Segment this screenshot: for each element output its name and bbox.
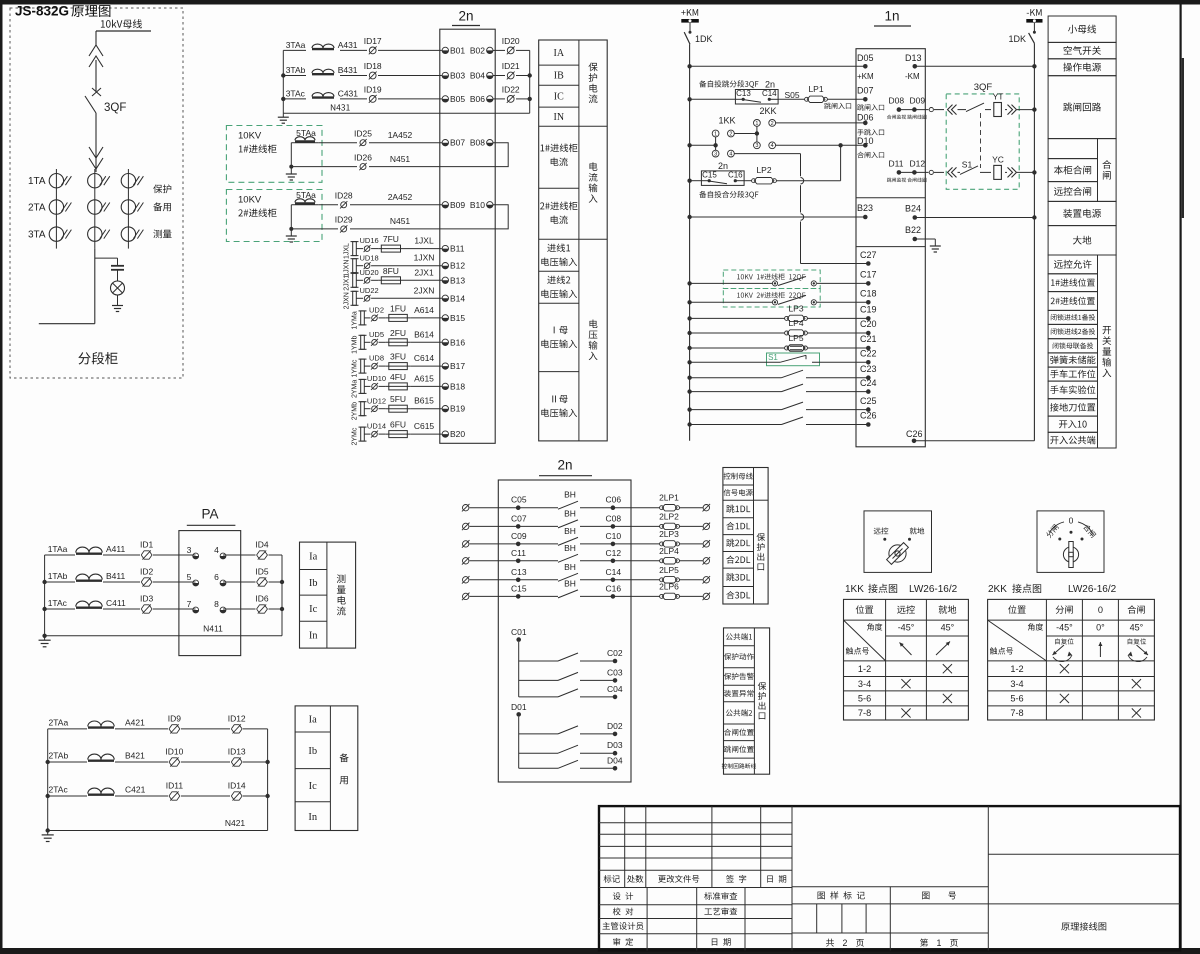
svg-text:5FU: 5FU [390, 394, 406, 404]
wire bus to 1KK [687, 137, 717, 150]
output table 2 grid [724, 628, 770, 774]
svg-text:C24: C24 [860, 378, 877, 388]
terminal external left (C11) [462, 557, 470, 565]
terminal B15 [442, 313, 465, 323]
terminal C22 [860, 348, 877, 364]
label Ia (PA) [309, 551, 317, 562]
terminal C05 [511, 495, 527, 510]
svg-text:1: 1 [714, 131, 717, 137]
terminal B06 [470, 94, 493, 104]
label 7-8 (2KK) [1010, 708, 1023, 718]
label 跳3DL [726, 573, 750, 581]
svg-text:6FU: 6FU [390, 420, 406, 430]
wire 1KK-2 to 2KK [734, 131, 759, 135]
label 1TAb [48, 571, 68, 581]
label 合闸监视 [887, 115, 906, 120]
svg-text:ID2: ID2 [140, 566, 154, 576]
svg-text:B01: B01 [450, 45, 465, 55]
wire C615 row [364, 433, 442, 435]
signal table grid (current/voltage inputs) [539, 40, 608, 441]
terminal C02 [607, 648, 623, 663]
label 2#进线位置 [1051, 297, 1095, 305]
svg-text:In: In [308, 812, 317, 823]
terminal C17 [860, 270, 877, 286]
contact BH (C07) [558, 508, 578, 528]
CT 2TAb [88, 754, 114, 761]
terminal ID25 [354, 128, 372, 146]
svg-text:1YMb: 1YMb [352, 336, 359, 354]
svg-text:2KK: 2KK [759, 106, 776, 116]
svg-text:C15: C15 [511, 583, 527, 593]
svg-text:LP5: LP5 [788, 333, 803, 343]
svg-text:B06: B06 [470, 94, 485, 104]
svg-text:D11: D11 [889, 158, 904, 168]
svg-text:1KK: 1KK [718, 116, 735, 126]
svg-text:2n: 2n [458, 9, 473, 24]
label 公共端1 [726, 633, 752, 640]
svg-text:YC: YC [992, 154, 1004, 164]
svg-text:C13: C13 [736, 89, 751, 98]
svg-text:A421: A421 [125, 717, 145, 727]
svg-text:ID4: ID4 [255, 539, 269, 549]
wire D04 branch [519, 767, 615, 769]
terminal external left (C15) [462, 593, 470, 601]
label 保护告警 [724, 673, 754, 680]
terminal lug 2JXN [351, 291, 359, 305]
X mark 1KK row 1 col 1 [901, 679, 910, 688]
svg-text:ID3: ID3 [140, 593, 154, 603]
X mark 1KK row 0 col 2 [943, 664, 952, 673]
wire C01 common [518, 642, 520, 697]
label 0 (2KK) [1098, 605, 1103, 615]
svg-text:1YMc: 1YMc [352, 359, 359, 377]
label 自复位 (分闸) [1055, 638, 1073, 644]
X mark 2KK row 2 col 1 [1060, 694, 1069, 703]
svg-text:LP2: LP2 [756, 165, 771, 175]
svg-text:10KV: 10KV [238, 194, 262, 205]
svg-text:1FU: 1FU [390, 303, 406, 313]
dashed box 10KV 1#进线柜 12QF [723, 270, 820, 289]
wire bus drop [95, 31, 97, 45]
terminal B07 [442, 138, 465, 148]
terminal C10 [606, 531, 622, 546]
fuse link LP4 [785, 318, 808, 336]
wire 2JX1 row [356, 279, 442, 281]
plug terminal D12 out [929, 170, 933, 174]
svg-text:1: 1 [937, 938, 942, 948]
wire LP2 row [687, 179, 840, 183]
wire B10 return loop [350, 205, 508, 229]
label 1-2 (2KK) [1010, 664, 1023, 674]
label 装置异常 [724, 690, 754, 697]
coil YC [992, 154, 1004, 179]
svg-text:B431: B431 [338, 65, 358, 75]
label 远控 (1KK) [897, 605, 915, 613]
svg-text:Ib: Ib [308, 746, 317, 757]
contact box C15 C16 (2n) [701, 161, 745, 185]
svg-text:In: In [309, 630, 318, 641]
terminal C12 [606, 548, 622, 563]
svg-text:UD20: UD20 [360, 268, 379, 277]
terminal ID22 [502, 84, 520, 102]
svg-text:C11: C11 [511, 548, 526, 558]
svg-text:S05: S05 [784, 90, 799, 100]
wire C25 row [687, 407, 868, 411]
label 控制母线 [724, 473, 753, 480]
svg-text:5-6: 5-6 [858, 694, 871, 704]
group label 电压输入 [589, 319, 598, 360]
terminal lug 1YMc [359, 359, 367, 373]
svg-text:D08: D08 [889, 95, 905, 105]
label 45° (1KK) [941, 623, 955, 633]
label IA [554, 48, 565, 59]
wire N431 [283, 104, 529, 113]
label 就地 (dial) [910, 527, 925, 534]
terminal B04 [470, 70, 493, 80]
label In (PA) [309, 630, 318, 641]
wire C13 row left [470, 579, 559, 581]
wire C03 branch [519, 679, 615, 681]
wire 2LP4 row right [679, 560, 703, 562]
label 位置 (1KK) [856, 605, 874, 614]
terminal D11 [889, 158, 904, 174]
CT 3TAa [0, 0, 1, 1]
svg-text:2TAa: 2TAa [49, 717, 69, 727]
svg-text:Ia: Ia [309, 551, 317, 562]
fuse link LP2 [752, 165, 777, 184]
label 审定 [613, 938, 633, 946]
contact table 1KK grid [844, 599, 969, 720]
fuse link 2LP2 [659, 511, 679, 529]
svg-text:D09: D09 [910, 95, 926, 105]
terminal UD5 [369, 330, 384, 346]
svg-text:3-4: 3-4 [858, 679, 871, 689]
label 合闸线圈 [907, 178, 926, 183]
terminal B23 [857, 203, 873, 219]
group label 保护出口 (2) [758, 682, 766, 719]
wire 2TAb row [48, 761, 268, 763]
label 本柜合闸 [1054, 165, 1091, 174]
svg-text:B615: B615 [414, 396, 434, 406]
label 合1DL [726, 522, 750, 530]
svg-text:2JX1: 2JX1 [344, 275, 351, 291]
svg-text:C09: C09 [511, 531, 527, 541]
terminal D07 [857, 86, 884, 111]
terminal lug 1JXN [351, 259, 359, 273]
disconnect plug YT right [1008, 105, 1017, 115]
svg-text:C20: C20 [860, 319, 877, 329]
wire C04 branch [519, 696, 615, 698]
wire B08 return loop [369, 143, 508, 167]
label 操作电源 [1063, 63, 1101, 72]
terminal C21 [860, 334, 877, 350]
terminal ID18 [364, 61, 382, 79]
terminal UD16 [360, 236, 379, 252]
pin 5 [187, 572, 199, 586]
svg-text:2: 2 [771, 121, 774, 127]
svg-text:B14: B14 [450, 293, 465, 303]
lamp (circle with X) [111, 281, 125, 295]
page frame bottom border [0, 948, 1200, 954]
disconnect plug YC right [1008, 167, 1017, 177]
terminal lug 1YMa [359, 311, 367, 325]
device 1n header [874, 9, 911, 26]
svg-text:C19: C19 [860, 305, 877, 315]
label 合闸位置 [724, 729, 754, 736]
contact table 2KK grid [988, 599, 1155, 720]
CT 1TAc [76, 601, 102, 608]
svg-text:1JXL: 1JXL [344, 243, 351, 259]
terminal ID9 [168, 713, 182, 733]
terminal UD10 [367, 374, 386, 390]
wire breaker to drawout [95, 113, 97, 147]
label 3QF [104, 102, 126, 114]
label N451 (2) [390, 216, 411, 226]
terminal B02 [470, 45, 493, 55]
svg-text:2LP2: 2LP2 [659, 511, 679, 521]
svg-text:C25: C25 [860, 396, 877, 406]
terminal D10 [857, 136, 884, 158]
svg-text:B03: B03 [450, 70, 465, 80]
wire 3TAc phase row [283, 93, 442, 99]
CT 1TAb [76, 574, 102, 581]
label 工艺审查 [704, 908, 737, 916]
terminal ID26 [354, 152, 372, 170]
wire C20 row [687, 331, 868, 335]
svg-text:N421: N421 [225, 818, 246, 828]
svg-text:UD22: UD22 [360, 286, 379, 295]
label A411 [106, 544, 125, 554]
label 3-4 (1KK) [858, 679, 871, 689]
X mark 2KK row 3 col 3 [1132, 708, 1141, 717]
breaker 3QF X mark [92, 88, 101, 96]
svg-text:N411: N411 [203, 623, 223, 633]
terminal D13 [905, 53, 922, 81]
dashed box 10KV 1#进线柜 [226, 126, 322, 183]
fuse 1FU [386, 303, 411, 321]
terminal B11 [442, 244, 465, 254]
label 合闸 (dial) [1083, 523, 1097, 538]
X mark 1KK row 3 col 1 [901, 708, 910, 717]
label 合3DL [726, 591, 750, 599]
output table 1 grid [723, 468, 768, 605]
svg-text:2LP3: 2LP3 [659, 529, 679, 539]
linkage dashed [980, 113, 982, 168]
CT 1TAa [76, 547, 102, 554]
plug terminal D09 out [929, 108, 933, 112]
wire C11 row left [470, 560, 559, 562]
svg-text:ID10: ID10 [165, 746, 183, 756]
label 进线1电压输入 [541, 244, 577, 267]
svg-text:2TA: 2TA [28, 203, 46, 214]
wire A615 row [364, 385, 442, 387]
svg-text:B18: B18 [450, 381, 465, 391]
contact BH (C11) [558, 543, 578, 563]
terminal ID6 [255, 593, 269, 613]
svg-text:B10: B10 [470, 200, 485, 210]
label 分闸 (dial) [1045, 524, 1059, 539]
svg-text:ID11: ID11 [166, 780, 184, 790]
svg-text:ID6: ID6 [255, 593, 269, 603]
terminal C01 [511, 627, 527, 642]
label 大地 [1073, 236, 1091, 245]
svg-text:C21: C21 [860, 334, 877, 344]
label 跳1DL [726, 505, 750, 513]
svg-text:3: 3 [187, 545, 192, 555]
fuse link LP5 [785, 333, 808, 351]
switch 1DK (-KM) [1008, 23, 1035, 45]
fuse 4FU [386, 372, 411, 390]
svg-text:B11: B11 [450, 244, 465, 254]
label 备自投跳分段3QF [699, 80, 758, 88]
bus +KM terminal [681, 9, 699, 22]
svg-text:UD8: UD8 [369, 354, 384, 363]
wire C02 branch [519, 660, 615, 662]
contact D02 [558, 726, 578, 734]
label 1YMb (vertical) [352, 336, 359, 354]
svg-text:D10: D10 [857, 136, 874, 146]
contact C24 [782, 384, 804, 392]
breaker aux contact 3QF (YT) [966, 103, 984, 112]
terminal B13 [442, 275, 465, 285]
svg-text:C07: C07 [511, 513, 527, 523]
svg-text:2JXN: 2JXN [414, 285, 435, 295]
wire 10kV bus [96, 30, 151, 32]
contact D03 [558, 745, 578, 753]
svg-text:C421: C421 [125, 784, 146, 794]
terminal C26 [860, 411, 877, 427]
terminal D12 [910, 158, 926, 174]
terminal D06 [857, 112, 884, 135]
svg-text:1JXN: 1JXN [414, 253, 435, 263]
label 保护动作 [724, 653, 754, 660]
CT 3TAb [0, 0, 1, 1]
label 2JX1 [414, 267, 434, 277]
svg-text:BH: BH [564, 490, 576, 500]
label 处数 [627, 875, 643, 883]
label Ic (spare) [309, 781, 317, 792]
label II母电压输入 [541, 395, 577, 417]
terminal UD22 [360, 286, 379, 302]
svg-text:4: 4 [214, 545, 219, 555]
label 自复位 (合闸) [1128, 638, 1146, 644]
contact BH (C13) [558, 562, 578, 582]
svg-text:UD10: UD10 [367, 374, 386, 383]
label 合2DL [726, 556, 750, 564]
label 远控合闸 [1054, 187, 1091, 196]
svg-text:0: 0 [1069, 515, 1074, 525]
label 2JX1 (vertical) [344, 275, 351, 291]
wire D06 row (2KK-2) [776, 122, 866, 124]
wire C17 row [687, 281, 868, 285]
svg-text:B24: B24 [905, 204, 921, 214]
label 手车实验位 [1050, 385, 1095, 394]
svg-text:C03: C03 [607, 667, 623, 677]
wire B22 to ground [915, 239, 936, 242]
wire B04 to ID21 [493, 75, 530, 77]
terminal B20 [442, 429, 465, 439]
terminal external right (2LP4) [703, 557, 711, 565]
svg-text:6: 6 [214, 572, 219, 582]
disconnect plug YT left [948, 105, 957, 115]
svg-text:B19: B19 [450, 404, 465, 414]
svg-text:3FU: 3FU [390, 352, 406, 362]
svg-text:B04: B04 [470, 70, 485, 80]
label C614 [414, 353, 435, 363]
svg-text:BH: BH [564, 508, 576, 518]
label B614 [414, 329, 434, 339]
terminal external right (2LP5) [703, 576, 711, 584]
label C615 [414, 421, 435, 431]
terminal C18 [860, 289, 877, 305]
X mark 2KK row 0 col 1 [1060, 664, 1069, 673]
svg-text:ID22: ID22 [502, 84, 520, 94]
label 7-8 (1KK) [858, 708, 871, 718]
label A615 [414, 373, 434, 383]
wire +KM bus vertical [689, 44, 691, 441]
ground N411 [39, 636, 51, 647]
wire 2TAc row [48, 795, 268, 797]
terminal lug 1JXL [351, 242, 359, 256]
label 1TA [28, 176, 46, 187]
wire left bus N431 star [281, 50, 285, 113]
terminal B19 [442, 404, 465, 414]
dashed box 10KV 2#进线柜 22QF [723, 289, 820, 308]
svg-text:B23: B23 [857, 203, 873, 213]
svg-text:2YMa: 2YMa [352, 380, 359, 398]
caption 2KK 接点图 [988, 584, 1117, 595]
terminal external left (C13) [462, 576, 470, 584]
svg-text:1KK: 1KK [845, 584, 864, 595]
wire 3TAa phase row [283, 44, 442, 50]
svg-text:7: 7 [187, 599, 192, 609]
svg-text:7-8: 7-8 [858, 708, 871, 718]
svg-text:B09: B09 [450, 200, 465, 210]
label 闭锁进线1备投 [1051, 314, 1095, 320]
svg-text:2LP6: 2LP6 [659, 581, 679, 591]
svg-text:C06: C06 [606, 495, 622, 505]
svg-text:3-4: 3-4 [1010, 679, 1023, 689]
wire 2LP6 row right [679, 595, 703, 597]
contact D04 [558, 760, 578, 768]
terminal C24 [860, 378, 877, 394]
svg-text:B07: B07 [450, 138, 465, 148]
svg-text:3TA: 3TA [28, 230, 46, 241]
pin 6 [214, 572, 226, 586]
wire D01 common [518, 717, 520, 769]
arrow 0 (up) [1098, 642, 1102, 657]
terminal B05 [442, 94, 465, 104]
label 2JXN [414, 285, 435, 295]
svg-text:3TAb: 3TAb [286, 65, 306, 75]
svg-text:-45°: -45° [898, 623, 915, 633]
wire C05 row left [470, 507, 559, 509]
contact C26 [782, 417, 804, 425]
wire C24 row [687, 389, 868, 393]
wire ID20-22 tie bus [528, 50, 532, 113]
terminal C04 [607, 684, 623, 699]
svg-text:BH: BH [564, 562, 576, 572]
svg-text:B13: B13 [450, 275, 465, 285]
label 3TAb [286, 65, 306, 75]
label 接地刀位置 [1050, 403, 1095, 412]
wire D02 branch [519, 733, 615, 735]
terminal B09 [442, 200, 465, 210]
wire C08 row mid [580, 525, 660, 527]
wire 2JXN row [356, 297, 442, 299]
label 1YMa (vertical) [352, 311, 359, 329]
svg-text:C23: C23 [860, 364, 877, 374]
